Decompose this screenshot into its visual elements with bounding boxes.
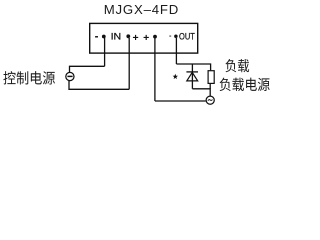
terminal 1 dot (IN -) bbox=[102, 35, 106, 39]
svg-text:+: + bbox=[133, 32, 139, 44]
wire control supply bottom bbox=[69, 81, 129, 89]
terminal 4 dot (OUT -) bbox=[174, 35, 178, 39]
wire OUT- rail to load resistor bbox=[176, 64, 210, 70]
wire from terminal 1 down bbox=[104, 38, 106, 66]
source G2 load supply circle bbox=[206, 96, 214, 104]
source G1 control supply circle bbox=[66, 72, 74, 80]
diode D1 vertical lead bbox=[191, 64, 193, 89]
svg-text:-: - bbox=[169, 31, 172, 40]
wire to load supply left bbox=[155, 100, 206, 102]
wire from terminal 2 down bbox=[128, 38, 130, 89]
svg-text:-: - bbox=[95, 31, 99, 43]
terminal 2 dot (IN +) bbox=[126, 34, 130, 38]
svg-text:MJGX–4FD: MJGX–4FD bbox=[104, 2, 179, 17]
label 负载 (load) bbox=[225, 59, 249, 72]
svg-text:+: + bbox=[143, 32, 149, 44]
resistor R load rectangle bbox=[208, 71, 214, 84]
svg-text:IN: IN bbox=[111, 31, 122, 42]
wire resistor bottom stub bbox=[209, 84, 211, 89]
module U1 MJGX-4FD outline box bbox=[90, 23, 198, 53]
svg-text:OUT: OUT bbox=[179, 31, 195, 41]
label 负载电源 (load supply) bbox=[220, 78, 270, 91]
wire from terminal 4 down bbox=[175, 38, 177, 64]
wire diode bottom junction to load supply top bbox=[192, 89, 210, 96]
G2 tilde mark bbox=[208, 100, 213, 101]
label 控制电源 (control supply) bbox=[3, 71, 55, 84]
wire to control supply top bbox=[70, 66, 105, 72]
G1 minus mark bbox=[67, 75, 72, 77]
diode D1 cathode bar bbox=[186, 71, 198, 73]
diode D1 triangle (anode, pointing up) bbox=[187, 72, 198, 81]
wire from terminal 3 down bbox=[154, 38, 156, 101]
terminal 3 dot (OUT +) bbox=[153, 35, 157, 39]
star mark * next to diode bbox=[173, 74, 178, 79]
